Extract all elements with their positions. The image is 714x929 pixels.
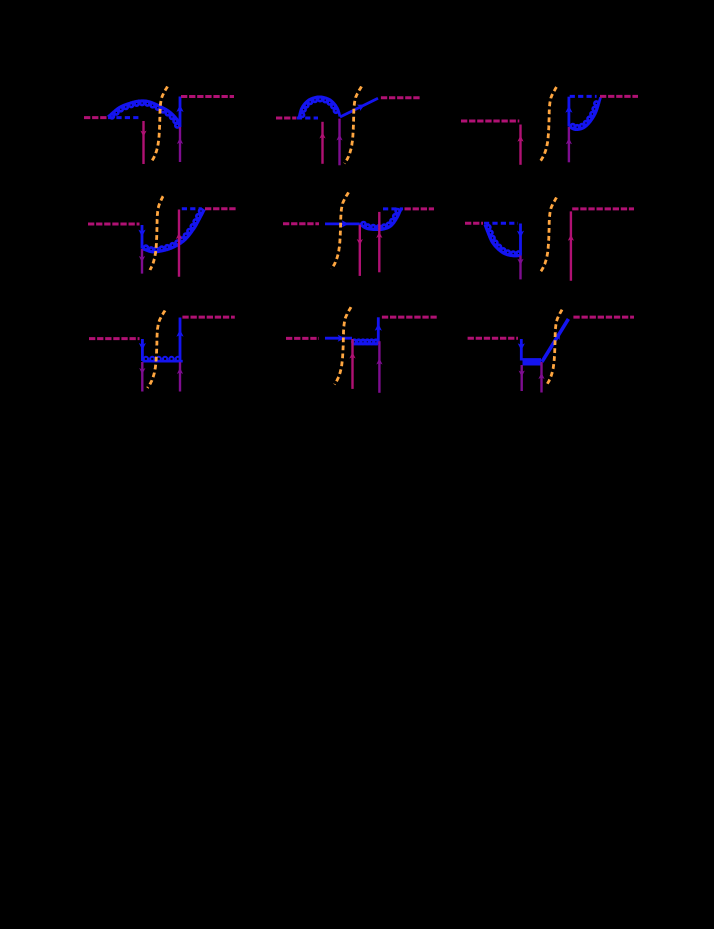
p2 photon curly semicircle [299, 97, 340, 118]
p2 electron dashed on left level [297, 117, 318, 120]
p5 orange dashed wall curve [332, 192, 349, 269]
p7 left level (magenta dashed) [89, 337, 140, 340]
p4 left level (magenta dashed) [88, 223, 140, 226]
p5 right turning-point line (up arrow) [376, 212, 382, 272]
p1 photon curly arc [108, 101, 180, 128]
p2 right turning-point line (up arrow) [336, 119, 342, 166]
p8 electron vertical line [377, 317, 380, 344]
p6 left turning-point line (down arrow) [517, 256, 523, 280]
p3 electron dashed on right level [570, 95, 597, 98]
p5 right level (magenta dashed) [405, 207, 435, 210]
p5 electron right arrow [342, 220, 349, 227]
panel 7 [89, 311, 235, 392]
p7 electron up arrow [176, 329, 183, 336]
p2 left level (magenta dashed) [276, 117, 296, 120]
p6 photon curly arc [485, 225, 521, 256]
p9 electron diagonal line [542, 319, 568, 362]
p4 electron dashed on right level [182, 207, 202, 210]
p4 right turning-point line (up arrow) [176, 210, 182, 277]
p9 photon thick bar [523, 358, 542, 365]
p8 right turning-point line (up arrow) [376, 341, 382, 393]
p3 orange dashed wall curve [541, 87, 557, 161]
p2 left turning-point line (up arrow) [319, 122, 325, 164]
panel 4 [88, 196, 236, 277]
p1 left level (magenta dashed) [84, 116, 108, 119]
p9 left turning-point line (down arrow) [519, 365, 525, 391]
p1 left turning-point line (down arrow) [140, 121, 146, 164]
p6 orange dashed wall curve [541, 198, 557, 273]
p6 right turning-point line (up arrow) [568, 211, 574, 280]
p8 left level (magenta dashed) [286, 337, 319, 340]
p2 orange dashed wall curve [345, 87, 362, 164]
p4 photon curly arc [142, 209, 205, 252]
p8 left turning-point line (up arrow) [349, 339, 355, 389]
p1 right turning-point line (up arrow) [177, 127, 183, 162]
p5 left turning-point line (down arrow) [357, 225, 363, 276]
panel 5 [283, 192, 434, 276]
p9 right level (magenta dashed) [573, 316, 634, 319]
p3 electron up arrow [565, 105, 572, 112]
p9 left level (magenta dashed) [468, 337, 518, 340]
p1 right level (magenta dashed) [181, 95, 234, 98]
p6 electron vertical line [519, 224, 522, 256]
p3 right level (magenta dashed) [600, 95, 638, 98]
p4 electron down arrow [138, 230, 145, 237]
p5 photon curly arc [360, 209, 402, 230]
p7 orange dashed wall curve [148, 311, 166, 389]
p4 orange dashed wall curve [150, 196, 163, 270]
panel 6 [465, 198, 634, 281]
p9 right turning-point line (up arrow) [538, 362, 544, 393]
p1 orange dashed wall curve [151, 87, 168, 163]
p6 electron down arrow [517, 231, 524, 238]
p2 electron diagonal arrow [357, 105, 365, 112]
p8 electron right arrow [338, 335, 345, 342]
p6 left level (magenta dashed) [465, 222, 483, 225]
p6 right level (magenta dashed) [572, 207, 634, 210]
p1 electron up arrow [176, 105, 183, 112]
p4 left turning-point line (down arrow) [139, 249, 145, 274]
p9 electron down arrow [518, 343, 525, 350]
p1 electron dashed on left level [108, 116, 140, 119]
p6 electron dashed on left level [484, 222, 518, 225]
p8 photon curly horizontal [352, 340, 378, 344]
p4 electron vertical line [141, 225, 144, 249]
p7 photon curly horizontal [142, 357, 182, 361]
p1 electron vertical line [179, 97, 182, 128]
p8 right level (magenta dashed) [382, 316, 437, 319]
p7 electron vertical line right [179, 318, 182, 362]
p7 right level (magenta dashed) [182, 316, 234, 319]
p9 orange dashed wall curve [547, 310, 562, 385]
p7 electron down arrow [139, 343, 146, 350]
p9 electron diagonal arrow [554, 332, 561, 340]
panel 9 [468, 310, 634, 393]
p3 electron vertical line [568, 97, 571, 127]
p3 right turning-point line (up arrow) [566, 127, 572, 162]
panel 2 [276, 87, 420, 166]
p4 right level (magenta dashed) [205, 207, 236, 210]
panel 3 [461, 87, 638, 165]
p9 electron vertical line [520, 339, 523, 361]
p5 left level (magenta dashed) [283, 222, 319, 225]
p7 right turning-point line (up arrow) [177, 362, 183, 392]
p3 left level (magenta dashed) [461, 120, 519, 123]
p7 electron vertical line left [141, 339, 144, 361]
p2 electron diagonal line [340, 98, 378, 117]
p2 right level (magenta dashed) [381, 96, 420, 99]
panel 1 [84, 87, 234, 165]
p5 electron dashed on right level [383, 207, 403, 210]
p8 electron horizontal line [325, 337, 352, 340]
p8 electron up arrow [375, 324, 382, 331]
panel 8 [286, 307, 437, 393]
p8 orange dashed wall curve [335, 307, 352, 384]
p5 electron horizontal line [325, 222, 360, 225]
p7 left turning-point line (down arrow) [139, 362, 145, 392]
p3 photon curly arc [569, 98, 601, 130]
p3 left turning-point line (up arrow) [517, 125, 523, 165]
